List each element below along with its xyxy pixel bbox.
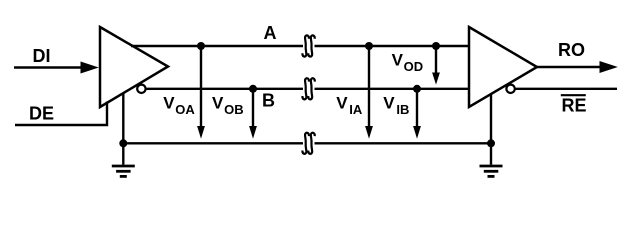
ground rail (left segment) — [123, 142, 303, 144]
break symbol on wire B — [302, 78, 314, 99]
wire B (left segment) — [146, 88, 303, 90]
svg-text:V: V — [383, 94, 395, 113]
break symbol on ground rail — [302, 133, 314, 154]
svg-text:V: V — [336, 94, 348, 113]
node junction A / V_IA tap — [365, 42, 373, 50]
svg-text:OA: OA — [175, 102, 195, 117]
wire DI input — [14, 66, 84, 68]
svg-text:IB: IB — [396, 102, 409, 117]
node junction B / V_IB tap — [413, 85, 421, 93]
V_IB measurement arrow — [416, 89, 418, 128]
ground symbol left — [122, 143, 124, 164]
svg-text:A: A — [264, 23, 277, 43]
node junction right ground — [487, 139, 495, 147]
node junction B / V_OB tap — [249, 85, 257, 93]
svg-text:B: B — [262, 91, 275, 111]
V_IA measurement arrow — [368, 46, 370, 128]
inversion bubble on driver output B — [137, 85, 145, 93]
svg-text:DE: DE — [29, 104, 54, 124]
svg-text:DI: DI — [33, 46, 51, 66]
wire A (right segment) — [315, 45, 470, 47]
DI input arrowhead — [81, 62, 99, 74]
svg-text:V: V — [392, 51, 404, 70]
RO output arrowhead — [600, 61, 618, 73]
svg-text:IA: IA — [349, 102, 363, 117]
svg-text:V: V — [163, 94, 175, 113]
svg-text:RO: RO — [558, 40, 585, 60]
svg-text:OB: OB — [224, 102, 244, 117]
ground rail (right segment) — [315, 142, 492, 144]
receiver op-amp U2 — [469, 27, 537, 107]
node junction A / V_OA tap — [197, 42, 205, 50]
V_OD measurement arrow — [435, 46, 437, 74]
node junction A / V_OD tap — [432, 42, 440, 50]
svg-text:RE: RE — [562, 95, 587, 115]
wire RE input — [515, 88, 617, 90]
driver op-amp U1 (line driver) — [100, 27, 168, 107]
wire receiver ground dropper — [490, 94, 492, 143]
wire A (left segment) — [131, 45, 303, 47]
wire DE input — [15, 102, 107, 126]
break symbol on wire A — [302, 35, 314, 56]
V_OB measurement arrow — [252, 89, 254, 128]
wire RO output — [537, 66, 602, 68]
wire B (right segment) — [315, 88, 470, 90]
wire driver ground dropper — [122, 93, 124, 143]
V_OA measurement arrow — [200, 46, 202, 128]
inversion bubble on receiver enable RE — [506, 85, 514, 93]
svg-text:OD: OD — [404, 59, 424, 74]
svg-text:V: V — [212, 94, 224, 113]
node junction left ground — [119, 139, 127, 147]
ground symbol right — [490, 143, 492, 164]
